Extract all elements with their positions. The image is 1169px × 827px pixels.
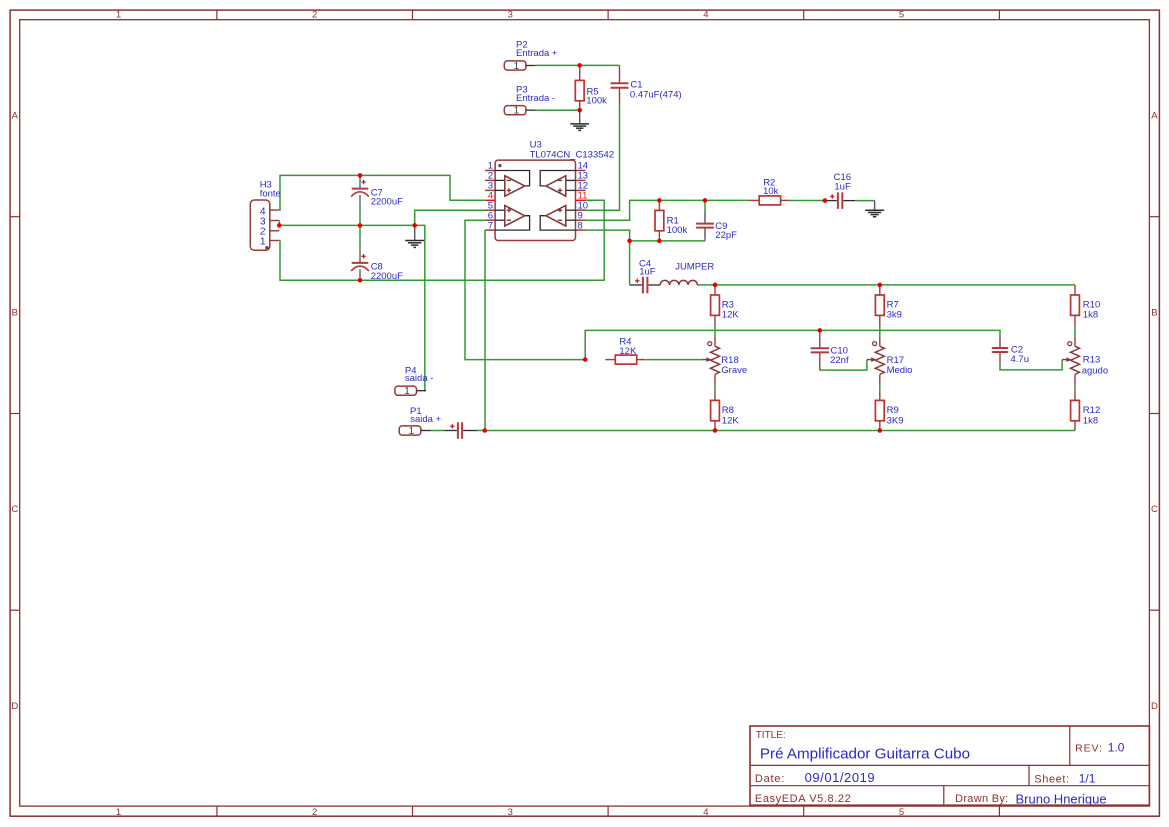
svg-text:0.47uF(474): 0.47uF(474) [630,89,682,100]
svg-text:5: 5 [899,10,904,21]
svg-text:1: 1 [404,386,410,397]
svg-text:JUMPER: JUMPER [675,261,714,272]
svg-text:1uF: 1uF [834,181,851,192]
svg-text:1.0: 1.0 [1108,740,1125,754]
svg-text:10k: 10k [763,186,779,197]
svg-text:1: 1 [514,106,520,117]
svg-text:D: D [11,701,18,712]
svg-text:4: 4 [703,10,708,21]
svg-text:1: 1 [116,807,121,818]
svg-text:22pF: 22pF [715,230,737,241]
svg-text:Pré Amplificador Guitarra Cubo: Pré Amplificador Guitarra Cubo [760,746,970,763]
svg-text:09/01/2019: 09/01/2019 [805,770,876,785]
svg-text:TITLE:: TITLE: [756,730,786,741]
svg-text:R9: R9 [887,405,899,416]
svg-text:Medio: Medio [887,365,913,376]
svg-text:12K: 12K [722,415,740,426]
svg-text:agudo: agudo [1082,365,1108,376]
svg-text:2: 2 [312,10,317,21]
svg-text:1: 1 [116,10,121,21]
svg-text:1k8: 1k8 [1083,415,1098,426]
svg-text:3K9: 3K9 [887,415,904,426]
svg-text:12K: 12K [619,346,637,357]
svg-text:1k8: 1k8 [1083,310,1098,321]
svg-text:100k: 100k [667,225,688,236]
svg-text:Grave: Grave [721,365,747,376]
svg-text:B: B [12,307,18,318]
svg-text:1/1: 1/1 [1079,772,1096,786]
svg-text:5: 5 [899,807,904,818]
svg-text:R12: R12 [1083,405,1100,416]
svg-text:A: A [12,111,19,122]
svg-text:3: 3 [508,807,513,818]
svg-text:22nf: 22nf [830,355,849,366]
svg-text:Sheet:: Sheet: [1034,774,1069,786]
svg-text:EasyEDA V5.8.22: EasyEDA V5.8.22 [755,793,851,805]
svg-text:D: D [1151,701,1158,712]
svg-text:100k: 100k [586,96,607,107]
svg-text:Date:: Date: [755,773,785,785]
svg-text:7: 7 [488,220,493,231]
svg-text:REV:: REV: [1075,742,1103,754]
svg-text:Bruno Hnerique: Bruno Hnerique [1016,792,1107,807]
svg-text:1uF: 1uF [639,267,656,278]
svg-text:saida -: saida - [405,373,434,384]
svg-text:2200uF: 2200uF [371,197,403,208]
svg-text:saida +: saida + [410,414,441,425]
svg-text:12K: 12K [722,310,740,321]
svg-text:R8: R8 [722,405,734,416]
svg-text:Entrada -: Entrada - [516,93,555,104]
svg-text:C: C [11,504,18,515]
svg-text:2200uF: 2200uF [371,271,403,282]
svg-text:fonte: fonte [260,189,281,200]
svg-text:B: B [1151,307,1157,318]
svg-text:1: 1 [514,61,520,72]
svg-text:4: 4 [703,807,708,818]
svg-text:C: C [1151,504,1158,515]
svg-text:R13: R13 [1083,355,1100,366]
svg-text:2: 2 [312,807,317,818]
svg-text:8: 8 [578,220,583,231]
svg-text:3k9: 3k9 [887,310,902,321]
svg-text:A: A [1151,111,1158,122]
svg-text:Drawn By:: Drawn By: [955,793,1008,805]
svg-text:1: 1 [260,237,266,248]
svg-text:TL074CN_C133542: TL074CN_C133542 [530,149,615,160]
svg-text:4.7u: 4.7u [1011,354,1030,365]
svg-text:1: 1 [409,426,415,437]
svg-text:3: 3 [508,10,513,21]
svg-text:Entrada +: Entrada + [516,48,558,59]
